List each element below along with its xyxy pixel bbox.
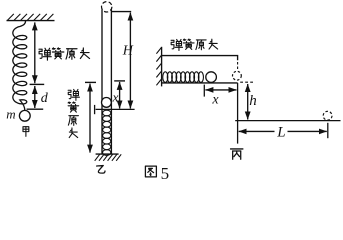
dashed ball at tube mouth (yi) <box>102 2 112 12</box>
arrow d (jia) <box>34 86 36 108</box>
ceiling (jia) <box>7 20 55 22</box>
svg-text:H: H <box>122 44 134 59</box>
label 弹簧原长 (jia) <box>39 48 51 60</box>
svg-text:5: 5 <box>161 164 170 182</box>
table top (bing) <box>162 82 238 84</box>
tick natural length (yi right) <box>114 80 125 82</box>
ground line (bing) <box>235 120 340 122</box>
ball m (jia) <box>19 110 30 121</box>
natural-length arrow (jia) <box>34 22 36 83</box>
label 甲 <box>23 127 29 137</box>
wall (bing) <box>161 47 163 87</box>
H reference line (yi) <box>111 11 131 13</box>
ceiling hatching <box>8 14 54 20</box>
spring in tube (yi) <box>103 110 111 155</box>
ball (yi) <box>102 98 112 108</box>
svg-text:x: x <box>211 93 219 108</box>
arrow L (bing) <box>239 130 327 132</box>
natural-length arrow (yi) <box>89 84 91 153</box>
ground (yi) <box>96 153 119 155</box>
arrow x (bing) <box>205 89 236 91</box>
label 乙 <box>97 165 105 173</box>
label 弹簧原长 vertical (yi) <box>68 89 79 100</box>
L label background gap <box>275 126 288 137</box>
spring (bing) <box>163 72 204 83</box>
L right tick (bing) <box>327 123 329 138</box>
dashed table-level extension (bing) <box>240 81 255 83</box>
tube right wall (yi) <box>110 9 112 154</box>
tick ball top (jia) <box>27 108 44 110</box>
label 弹簧原长 (bing) <box>171 39 182 50</box>
tick natural length end (jia) <box>30 83 45 85</box>
ground hatching (yi) <box>95 154 122 161</box>
svg-text:x: x <box>112 90 119 105</box>
svg-text:d: d <box>41 91 49 106</box>
arrow h (bing) <box>247 84 249 120</box>
svg-text:m: m <box>6 107 15 122</box>
dashed landing ball (bing) <box>323 111 332 120</box>
wall hatching (bing) <box>156 48 161 86</box>
tick natural length top (yi left) <box>85 81 96 83</box>
phantom ball dashed (bing) <box>233 71 242 80</box>
arrow H (yi) <box>129 13 131 109</box>
x left tick (bing) <box>203 85 205 97</box>
ball-bottom tick line (yi) <box>96 108 135 110</box>
label 丙 <box>231 149 243 159</box>
arrow x (yi) <box>119 82 121 109</box>
spring (jia) <box>13 21 27 111</box>
dashed drop to phantom ball (bing) <box>237 62 239 71</box>
svg-text:h: h <box>249 93 257 109</box>
ball (bing) <box>206 72 217 83</box>
natural length line (bing) <box>162 56 238 61</box>
left stop bar (yi) <box>94 105 96 114</box>
table edge (bing) <box>237 83 239 144</box>
tube left wall (yi) <box>101 9 103 154</box>
svg-text:L: L <box>276 124 285 140</box>
label 图 <box>145 166 156 177</box>
